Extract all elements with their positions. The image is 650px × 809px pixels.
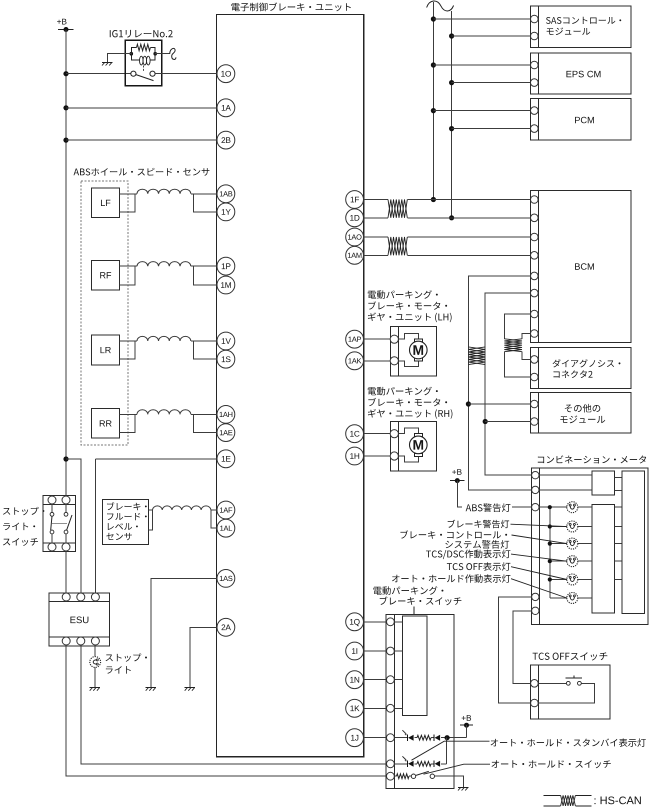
wire bus to lamp3 bbox=[550, 543, 567, 545]
pin 1N bbox=[346, 671, 364, 689]
switch label ストップ・ライト・スイッチ bbox=[3, 507, 44, 515]
legend text HS-CAN bbox=[594, 796, 640, 804]
wire EPB pin6 to LED row2 bbox=[395, 763, 408, 765]
wire auto-hold switch to ground bbox=[435, 776, 464, 787]
module BCM box bbox=[530, 191, 631, 343]
wire RR split to lower pin bbox=[193, 414, 217, 432]
switch S1 pins bottom bbox=[48, 543, 56, 551]
wire pin 1AS to ground bbox=[151, 578, 217, 687]
relay switch blade bbox=[136, 75, 154, 81]
wire pin 1I to EPB block bbox=[364, 650, 387, 652]
module PCM box bbox=[530, 99, 631, 140]
junction lamp bus row1 bbox=[548, 505, 552, 509]
wire BCM pin8 to twist bbox=[522, 334, 531, 339]
wire bus to lamp5 bbox=[550, 579, 567, 581]
pin 1C bbox=[346, 425, 364, 443]
EPS pin2 bbox=[531, 79, 539, 87]
pin 1AH bbox=[217, 406, 235, 424]
wire twist to diag pin2 bbox=[504, 352, 530, 377]
junction CAN-H/1F bbox=[431, 197, 436, 202]
pin 1AK bbox=[346, 352, 364, 370]
wire 1F CAN-H to BCM bbox=[364, 199, 389, 201]
wire LED1 to +B node bbox=[441, 737, 467, 739]
node +B battery (EPB) bbox=[462, 715, 471, 721]
junction lamp bus row2 bbox=[548, 524, 552, 528]
EPB pin p6 bbox=[387, 647, 395, 655]
wire lamp1 to driver bbox=[578, 506, 592, 508]
switch S1 pole right bbox=[65, 504, 67, 512]
wire fluid sensor signal+ bbox=[149, 509, 153, 511]
wire bus to lamp1 bbox=[539, 506, 567, 508]
BCM pin8 bbox=[531, 330, 539, 338]
wire stop lamp to ground bbox=[94, 667, 96, 687]
SAS pin2 bbox=[531, 32, 539, 40]
wire lamp5 to driver bbox=[578, 579, 592, 581]
lamp TCS OFF indicator bbox=[567, 574, 578, 585]
resistor EPB row2 bbox=[415, 763, 418, 765]
node +B battery (top-left) bbox=[57, 19, 66, 25]
wire RR signal+ bbox=[120, 413, 138, 415]
BCM pin4 bbox=[531, 252, 539, 260]
meter driver rect bbox=[592, 505, 615, 614]
junction lamp bus row3 bbox=[548, 542, 552, 546]
switch S1 pins top bbox=[48, 496, 56, 504]
ABS sensors label ABSホイール・スピード・センサ bbox=[74, 168, 210, 176]
leader auto-hold standby bbox=[412, 741, 490, 760]
switch auto-hold contacts bbox=[411, 774, 415, 778]
pin 1I bbox=[346, 642, 364, 660]
wire LR split to lower pin bbox=[193, 341, 217, 359]
twisted pair 1F/1D bbox=[388, 200, 407, 218]
ECU box U1 electronic brake control unit bbox=[217, 15, 364, 757]
wire driver to MCU row5 bbox=[615, 579, 623, 581]
junction CAN-L/EPS bbox=[449, 80, 454, 85]
BCM pin7 bbox=[531, 310, 539, 318]
resistor R relay parallel bbox=[131, 48, 136, 54]
SAS label SASコントロール・モジュール bbox=[546, 17, 621, 24]
junction +B/2B bbox=[63, 138, 68, 143]
module diagnosis connector 2 box bbox=[530, 348, 631, 389]
wire pin 1J to EPB LED1 bbox=[364, 737, 387, 739]
wire pin 1Q to EPB block bbox=[364, 621, 387, 623]
meter CAN transceiver rect bbox=[592, 471, 615, 495]
LED2 EPB row1 bbox=[433, 735, 435, 741]
switch S1 stop light switch box bbox=[43, 496, 76, 552]
lamp label オート・ホールド作動表示灯 bbox=[392, 574, 510, 583]
sensor LF box bbox=[92, 188, 120, 218]
wire CAN-L to PCM pin2 bbox=[452, 128, 531, 130]
wire +B branch to ESU bbox=[66, 459, 81, 593]
wire CAN-H to SAS pin1 bbox=[433, 18, 530, 20]
HS-CAN bus continuation squiggle (top) bbox=[427, 1, 454, 11]
wire driver to MCU row3 bbox=[615, 543, 623, 545]
sensor RF box bbox=[92, 260, 120, 290]
BCM pin2 bbox=[531, 214, 539, 222]
wire lamp6 to driver bbox=[578, 597, 592, 599]
ground stop lamp bbox=[90, 687, 101, 689]
relay actuator dashed link bbox=[143, 66, 145, 73]
wire +B rail vertical bbox=[65, 30, 67, 497]
EPB motor LH label 電動パーキング・ブレーキ・モータ・ギヤ・ユニット (LH) bbox=[368, 290, 438, 299]
relay coil node left bbox=[130, 52, 134, 56]
resistor EPB row1 bbox=[415, 737, 418, 739]
junction +B/ESU branch bbox=[63, 456, 68, 461]
wire twist to diag pin1 bbox=[522, 352, 531, 360]
wire lamp3 to driver bbox=[578, 543, 592, 545]
wire +B to pin 2B bbox=[66, 139, 217, 141]
wire RF signal+ bbox=[120, 265, 138, 267]
LED2 EPB row2 bbox=[433, 761, 435, 767]
wire 1AK to LH motor bbox=[364, 360, 391, 362]
EPB pin p8 bbox=[387, 704, 395, 712]
pin 2A bbox=[217, 618, 235, 636]
relay K1 IG1 relay No.2 box bbox=[125, 40, 161, 86]
wire TCS button to pin2 bbox=[538, 683, 594, 703]
leader TCS/DSC bbox=[511, 554, 567, 561]
lamp brake warning bbox=[567, 521, 578, 532]
wire fluid sensor split to 1AL bbox=[211, 510, 218, 528]
wire bus to lamp2 bbox=[550, 526, 567, 528]
BCM pin1 bbox=[531, 196, 539, 204]
twisted pair diagnosis bbox=[504, 339, 522, 352]
ABS sensor group dashed box bbox=[81, 181, 128, 445]
wire driver to MCU row2 bbox=[615, 526, 623, 528]
sensor RR box bbox=[92, 409, 120, 439]
wire CAN-H to PCM pin1 bbox=[433, 110, 530, 112]
lamp label TCS OFF表示灯 bbox=[447, 562, 511, 571]
pin 1P bbox=[217, 257, 235, 275]
wire relay coil to ground bbox=[108, 54, 132, 62]
pin 1Q bbox=[346, 613, 364, 631]
wire meter lamp bus vertical bbox=[549, 507, 551, 598]
LED auto-hold standby row1 bbox=[407, 735, 409, 741]
wire CAN-L to SAS pin2 bbox=[452, 35, 531, 37]
other pin1 bbox=[531, 400, 539, 408]
wire LR signal- bbox=[120, 341, 136, 359]
wire ESU pin3 to stop lamp bbox=[94, 645, 96, 656]
resistor EPB row3 bbox=[395, 775, 397, 777]
wire lamp4 to driver bbox=[578, 560, 592, 562]
wire pin 2A to ground bbox=[190, 627, 217, 687]
lamp stop light bulb bbox=[90, 657, 101, 668]
pin 1E bbox=[217, 450, 235, 468]
wire +B to pin 1A bbox=[66, 107, 217, 109]
lamp label ブレーキ警告灯 bbox=[448, 520, 509, 529]
relay coil node right bbox=[153, 52, 157, 56]
pin 1AB bbox=[217, 185, 235, 203]
wire ESU pin2 to EPB switch pin6 bbox=[81, 645, 387, 764]
pin 1M bbox=[217, 276, 235, 294]
EPB pin p6b bbox=[387, 760, 395, 768]
pin 1AP bbox=[346, 330, 364, 348]
ESU box bbox=[49, 593, 109, 646]
BCM pin6 bbox=[531, 289, 539, 297]
diag label ダイアグノシス・コネクタ2 bbox=[553, 359, 621, 367]
wire CAN-L bus vertical bbox=[451, 11, 453, 218]
label オート・ホールド・スイッチ bbox=[491, 760, 610, 768]
pin 1H bbox=[346, 447, 364, 465]
junction CAN-H/PCM bbox=[431, 108, 436, 113]
wire CAN-H bus vertical bbox=[432, 2, 434, 199]
wire pin 1N to EPB block bbox=[364, 679, 387, 681]
relay label IG1リレーNo.2 bbox=[110, 30, 173, 38]
wire pin 1E to ESU bbox=[95, 458, 217, 460]
ground relay coil bbox=[102, 61, 113, 63]
wire 1C to RH motor bbox=[364, 433, 391, 435]
wire meter pin1 to transceiver bbox=[539, 474, 592, 476]
junction +B/relay-switch bbox=[63, 71, 68, 76]
pushbutton TCS OFF bbox=[566, 681, 570, 685]
lamp label ABS警告灯 bbox=[462, 503, 512, 513]
wire 1AO to BCM pin3 bbox=[364, 236, 389, 238]
wire CAN-L to EPS pin2 bbox=[452, 82, 531, 84]
wire bus to lamp6 bbox=[550, 597, 567, 599]
wire LF split to lower pin bbox=[193, 194, 217, 212]
leader brake control bbox=[512, 535, 567, 544]
diag pin1 bbox=[531, 356, 539, 364]
meter MCU rect bbox=[622, 471, 645, 613]
diag pin2 bbox=[531, 373, 539, 381]
wire CAN-H to other-modules pin1 bbox=[468, 403, 530, 405]
pin 1O bbox=[217, 65, 235, 83]
junction lamp bus row4 bbox=[548, 559, 552, 563]
sensor LR box bbox=[92, 335, 120, 365]
lamp auto hold indicator bbox=[567, 593, 578, 604]
wire BCM pin6 CAN-L down bbox=[485, 293, 531, 475]
ECU label 電子制御ブレーキ・ユニット bbox=[231, 3, 350, 12]
leader ブレーキ警告灯 bbox=[511, 524, 567, 526]
PCM pin1 bbox=[531, 107, 539, 115]
motor M LH parking brake unit bbox=[390, 326, 436, 376]
EPB motor RH label 電動パーキング・ブレーキ・モータ・ギヤ・ユニット (RH) bbox=[368, 387, 438, 396]
wire driver to MCU row4 bbox=[615, 560, 623, 562]
lamp label TCS/DSC作動表示灯 bbox=[426, 550, 510, 559]
pin 1F bbox=[346, 191, 364, 209]
junction CAN-H/other-modules bbox=[466, 401, 471, 406]
pin 1K bbox=[346, 699, 364, 717]
EPB pin p5 bbox=[387, 618, 395, 626]
pin 1A bbox=[217, 99, 235, 117]
junction CAN-H/SAS bbox=[431, 16, 436, 21]
EPB pin p7 bbox=[387, 676, 395, 684]
leader auto hold indicator bbox=[511, 579, 567, 598]
module other modules box bbox=[530, 392, 631, 433]
junction +B/1A bbox=[63, 105, 68, 110]
motor M RH parking brake unit bbox=[390, 421, 436, 471]
twisted pair meter CAN bbox=[468, 347, 485, 365]
wire meter pin5 to TCS switch pin1 bbox=[513, 611, 532, 684]
pin 1J bbox=[346, 729, 364, 747]
pin 1AO bbox=[346, 228, 364, 246]
TCS pin2 bbox=[531, 699, 539, 707]
pin 1AF bbox=[217, 501, 235, 519]
wire TCS pin1 to button bbox=[538, 682, 566, 684]
pin 1Y bbox=[217, 203, 235, 221]
junction CAN-L/SAS bbox=[449, 33, 454, 38]
ESU pins top bbox=[62, 593, 70, 601]
pin 1V bbox=[217, 332, 235, 350]
pin 1D bbox=[346, 209, 364, 227]
pin 1AE bbox=[217, 424, 235, 442]
pin 1AL bbox=[217, 519, 235, 537]
wire bus to lamp4 bbox=[550, 560, 567, 562]
fluid sensor box ブレーキ・フルード・レベル・センサ bbox=[102, 499, 148, 544]
wire LR signal+ bbox=[120, 340, 138, 342]
wire CAN-L to other-modules pin2 bbox=[485, 421, 530, 423]
meter pin3 bbox=[532, 504, 539, 511]
wire +B to relay switch bbox=[66, 73, 131, 75]
pin 1S bbox=[217, 350, 235, 368]
lamp label ブレーキ・コントロール・システム警告灯 bbox=[400, 530, 507, 538]
lamp ABS warning bbox=[567, 502, 578, 513]
junction CAN-L/PCM bbox=[449, 126, 454, 131]
wire RF split to lower pin bbox=[193, 266, 217, 285]
module EPS CM box bbox=[530, 53, 631, 94]
switch S1 link bar bbox=[52, 522, 67, 524]
switch S2 TCS OFF box bbox=[530, 665, 610, 719]
meter pin4 bbox=[532, 593, 539, 600]
lamp brake control system warning bbox=[567, 538, 578, 549]
ESU pins bottom bbox=[62, 637, 70, 645]
wire ESU pin1 to EPB switch pin7 bbox=[66, 645, 386, 776]
EPB pin p7b bbox=[387, 772, 395, 780]
stop lamp label ストップ・ライト bbox=[106, 653, 147, 661]
wire transceiver to MCU b bbox=[615, 490, 623, 492]
other pin2 bbox=[531, 418, 539, 426]
wire CAN-H to EPS pin1 bbox=[433, 64, 530, 66]
other modules label その他のモジュール bbox=[565, 404, 600, 413]
combination meter box bbox=[531, 468, 648, 625]
BCM pin5 bbox=[531, 272, 539, 280]
wire +B to meter pin3 bbox=[457, 481, 531, 508]
BCM pin3 bbox=[531, 233, 539, 241]
wire meter pin4 to TCS switch pin2 bbox=[499, 597, 532, 703]
junction CAN-L/other-modules bbox=[483, 419, 488, 424]
wire pin 1K to EPB block bbox=[364, 707, 387, 709]
switch S3 EPB switch box bbox=[386, 615, 454, 789]
wire 1AM to BCM pin4 bbox=[364, 254, 389, 256]
ground 2A bbox=[185, 687, 196, 689]
wire RR signal- bbox=[120, 414, 136, 432]
junction lamp bus row5 bbox=[548, 577, 552, 581]
meter pin5 bbox=[532, 607, 539, 614]
inductor relay coil bbox=[131, 54, 139, 60]
pin 1AS bbox=[217, 570, 235, 588]
twisted pair 1AO/1AM bbox=[388, 237, 407, 255]
wire BCM pin7 to twist bbox=[504, 314, 530, 339]
leader auto-hold switch bbox=[424, 764, 491, 774]
meter label コンビネーション・メータ bbox=[538, 455, 646, 463]
EPS pin1 bbox=[531, 61, 539, 69]
wire lamp2 to driver bbox=[578, 526, 592, 528]
relay switch contact left bbox=[131, 71, 136, 76]
module SAS control box bbox=[530, 6, 631, 48]
junction EPB +B node bbox=[445, 735, 450, 740]
wire 1H to RH motor bbox=[364, 455, 391, 457]
junction CAN-L/1D bbox=[449, 215, 454, 220]
ground auto-hold switch bbox=[458, 786, 469, 788]
meter pin1 bbox=[532, 472, 539, 479]
lamp TCS/DSC indicator bbox=[567, 556, 578, 567]
node +B battery (meter) bbox=[452, 469, 461, 475]
wire relay to pin 1O bbox=[155, 73, 217, 75]
wire relay coil terminal hook bbox=[155, 53, 170, 55]
SAS pin1 bbox=[531, 15, 539, 23]
legend HS-CAN twisted pair symbol bbox=[544, 794, 561, 796]
wire driver to MCU row1 bbox=[615, 506, 623, 508]
pin 1AM bbox=[346, 246, 364, 264]
EPB switch inner block bbox=[403, 616, 427, 715]
PCM pin2 bbox=[531, 125, 539, 133]
EPB pin 1J bbox=[387, 734, 395, 742]
label オート・ホールド・スタンバイ表示灯 bbox=[491, 738, 646, 746]
meter pin2 bbox=[532, 486, 539, 493]
wire transceiver to MCU a bbox=[615, 477, 623, 479]
relay switch contact right bbox=[150, 71, 155, 76]
wire LED row2 to +B node bbox=[441, 763, 447, 765]
TCS OFF switch label TCS OFFスイッチ bbox=[533, 652, 608, 660]
EPB switch label 電動パーキング・ブレーキ・スイッチ bbox=[373, 586, 443, 595]
wire LF signal+ bbox=[120, 193, 138, 195]
leader TCS OFF bbox=[511, 567, 567, 580]
TCS pin1 bbox=[531, 680, 539, 688]
wire meter pin2 to transceiver bbox=[539, 489, 592, 491]
wire fluid sensor signal- bbox=[149, 510, 153, 530]
wire LF signal- bbox=[120, 194, 136, 212]
junction CAN-H/EPS bbox=[431, 62, 436, 67]
wire RF signal- bbox=[120, 266, 136, 285]
ground 1AS bbox=[146, 687, 157, 689]
wire 1D CAN-L to BCM bbox=[364, 217, 389, 219]
wire 1AP to LH motor bbox=[364, 338, 391, 340]
pin 2B bbox=[217, 131, 235, 149]
wire switch to ESU pin1 bbox=[65, 551, 67, 592]
switch S1 pole left bbox=[51, 504, 53, 512]
wire BCM pin5 CAN-H down bbox=[468, 276, 531, 490]
LED auto-hold switch illum row2 bbox=[407, 761, 409, 767]
